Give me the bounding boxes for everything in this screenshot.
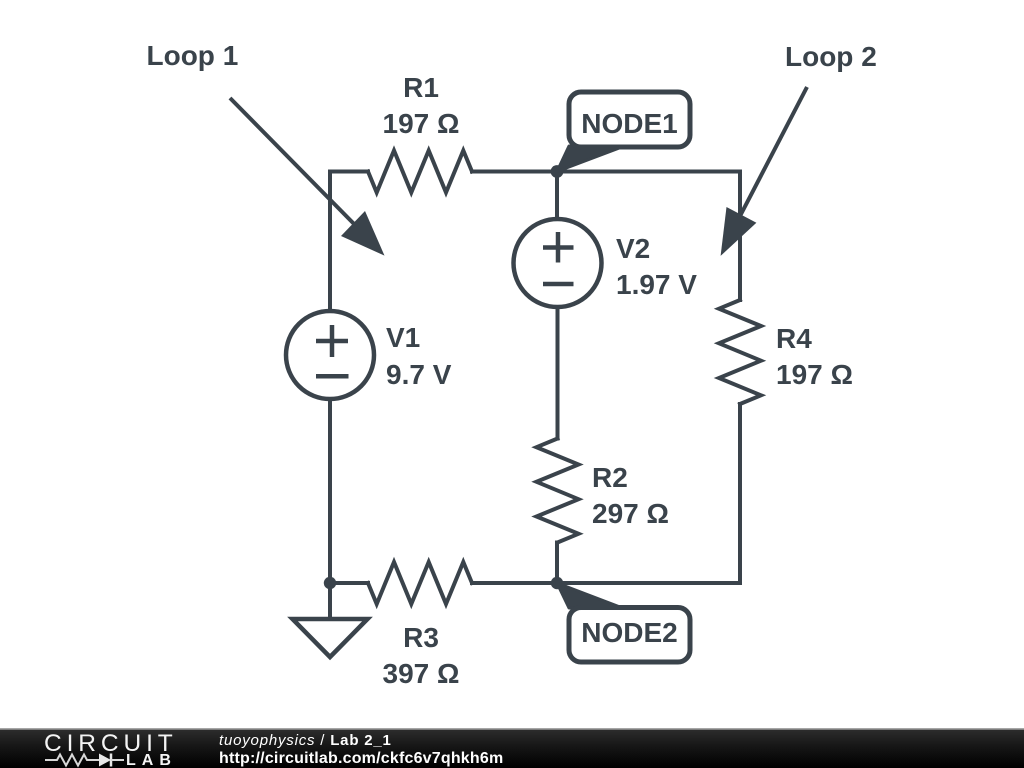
svg-text:http://circuitlab.com/ckfc6v7q: http://circuitlab.com/ckfc6v7qhkh6m	[219, 750, 503, 767]
resistor R2	[537, 439, 579, 543]
svg-text:Loop 1: Loop 1	[147, 40, 239, 71]
node C junction dot NODE2	[551, 577, 563, 589]
svg-text:R4: R4	[776, 323, 812, 354]
wire bottom left segment	[330, 581, 368, 585]
wire middle vertical lower	[555, 543, 559, 584]
svg-text:NODE1: NODE1	[581, 108, 677, 139]
svg-text:R1: R1	[403, 72, 439, 103]
resistor R3	[368, 562, 472, 604]
voltage source V1	[286, 311, 374, 399]
svg-text:V1: V1	[386, 322, 420, 353]
svg-text:V2: V2	[616, 233, 650, 264]
svg-text:Loop 2: Loop 2	[785, 41, 877, 72]
svg-text:197 Ω: 197 Ω	[776, 359, 853, 390]
node B junction dot ground-left	[324, 577, 336, 589]
svg-text:297 Ω: 297 Ω	[592, 498, 669, 529]
wire left vertical lower	[328, 400, 332, 583]
node NODE2 flag	[557, 583, 620, 608]
svg-text:397 Ω: 397 Ω	[383, 658, 460, 689]
wire top middle segment	[472, 170, 557, 174]
wire left vertical upper	[328, 172, 332, 311]
voltage source V2	[514, 219, 602, 307]
wire middle vertical mid	[556, 308, 560, 439]
svg-text:tuoyophysics / Lab 2_1: tuoyophysics / Lab 2_1	[219, 732, 392, 749]
wire middle vertical upper	[555, 172, 559, 219]
svg-text:NODE2: NODE2	[581, 617, 677, 648]
svg-text:9.7 V: 9.7 V	[386, 359, 452, 390]
svg-text:197 Ω: 197 Ω	[383, 108, 460, 139]
svg-text:1.97 V: 1.97 V	[616, 269, 697, 300]
wire bottom middle segment	[472, 581, 557, 585]
wire bottom right segment	[557, 581, 740, 585]
svg-text:R2: R2	[592, 462, 628, 493]
wire right vertical lower	[738, 404, 742, 583]
svg-text:R3: R3	[403, 622, 439, 653]
svg-text:LAB: LAB	[126, 752, 177, 768]
node A junction dot NODE1	[551, 165, 564, 178]
resistor R1	[368, 151, 472, 193]
resistor R4	[719, 300, 761, 404]
ground	[328, 583, 332, 619]
wire top-left horizontal segment	[330, 170, 368, 174]
wire top right segment	[557, 170, 740, 174]
wire right vertical upper	[738, 172, 742, 301]
node NODE1 flag	[557, 146, 622, 172]
